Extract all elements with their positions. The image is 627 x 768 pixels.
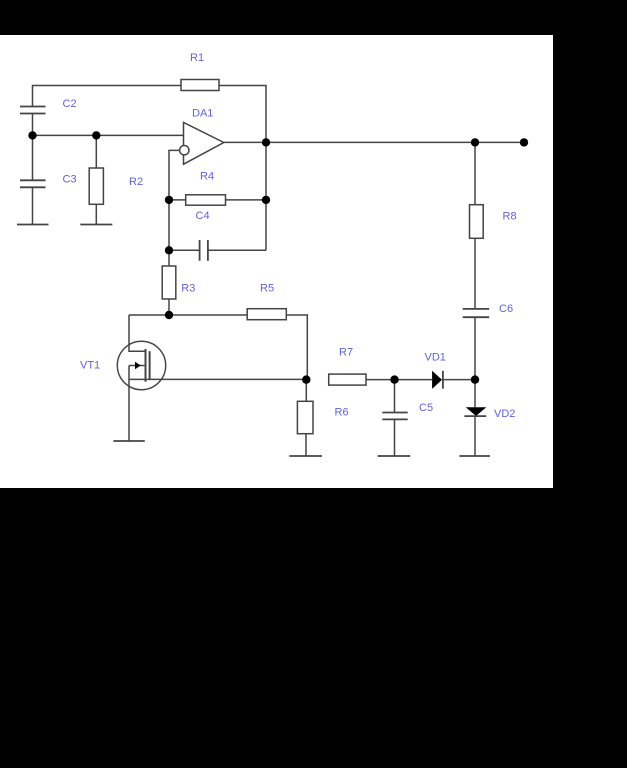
svg-text:R3: R3 [181,283,195,295]
svg-text:C6: C6 [499,303,513,315]
svg-text:C5: C5 [419,402,433,414]
svg-text:R8: R8 [503,210,517,222]
svg-text:C4: C4 [196,210,210,222]
svg-text:VD1: VD1 [425,352,446,364]
svg-text:DA1: DA1 [192,108,213,120]
svg-text:R2: R2 [129,176,143,188]
svg-text:R4: R4 [200,170,214,182]
svg-text:VD2: VD2 [494,408,515,420]
svg-text:VT1: VT1 [80,360,100,372]
svg-text:R7: R7 [339,347,353,359]
svg-text:R1: R1 [190,52,204,64]
svg-text:C2: C2 [63,98,77,110]
svg-text:R6: R6 [335,406,349,418]
svg-text:C3: C3 [63,174,77,186]
svg-text:R5: R5 [260,283,274,295]
